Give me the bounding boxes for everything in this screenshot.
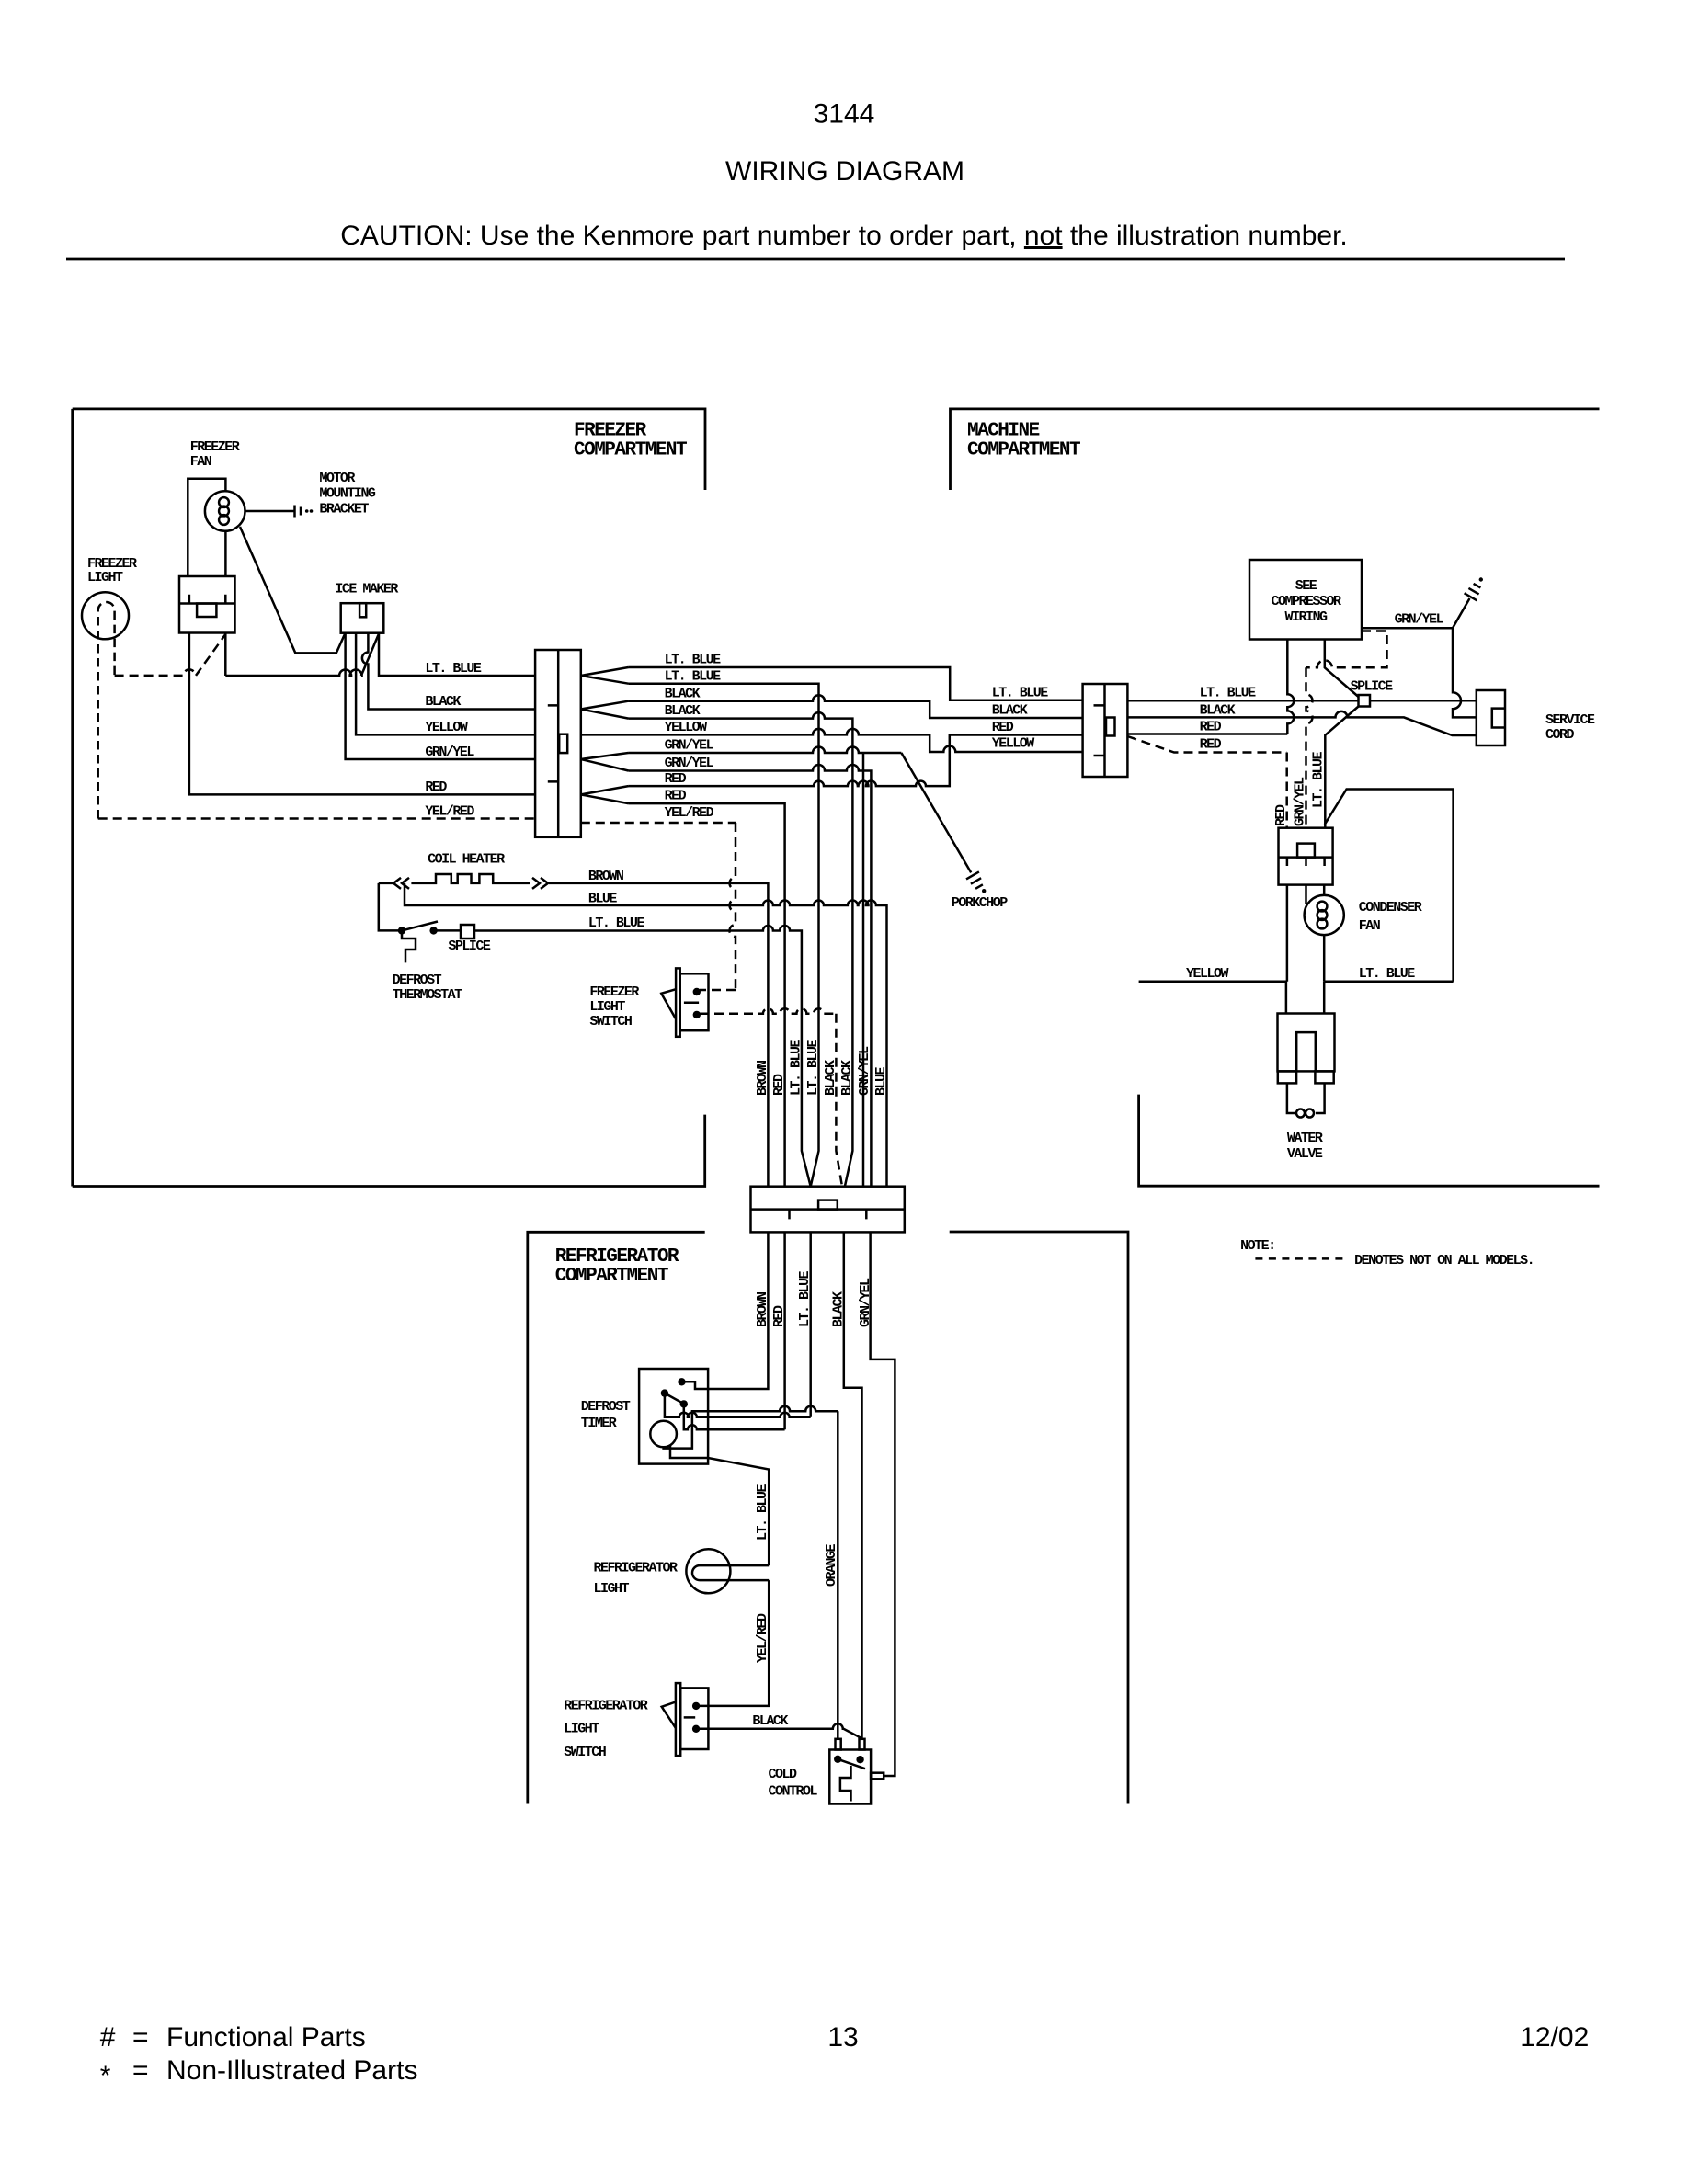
note dashed sample — [1255, 1257, 1343, 1260]
svg-text:LT. BLUE: LT. BLUE — [992, 686, 1049, 701]
svg-text:MOUNTING: MOUNTING — [319, 486, 376, 502]
svg-text:RED: RED — [992, 720, 1014, 735]
svg-text:WIRING DIAGRAM: WIRING DIAGRAM — [725, 156, 964, 187]
freezer compartment border top — [73, 409, 705, 490]
freezer light switch — [676, 968, 680, 1036]
svg-text:REFRIGERATOR: REFRIGERATOR — [564, 1699, 648, 1714]
svg-text:NOTE:: NOTE: — [1240, 1238, 1275, 1254]
svg-text:DEFROST: DEFROST — [393, 973, 442, 988]
svg-text:BLUE: BLUE — [588, 892, 618, 907]
svg-text:LT. BLUE: LT. BLUE — [1359, 966, 1416, 982]
water valve — [1278, 1014, 1335, 1072]
wire GRN/YEL compressor to ground — [1362, 598, 1470, 628]
svg-text:BLACK: BLACK — [992, 703, 1028, 719]
svg-text:*: * — [100, 2061, 111, 2091]
svg-text:YELLOW: YELLOW — [992, 736, 1035, 752]
svg-text:WIRING: WIRING — [1284, 609, 1328, 625]
wire condenser RED pin to YELLOW — [1286, 885, 1289, 982]
svg-text:FREEZER: FREEZER — [574, 421, 647, 442]
svg-text:YEL/RED: YEL/RED — [425, 804, 474, 820]
wire ice maker pin4 diagonal — [361, 634, 379, 677]
svg-text:12/02: 12/02 — [1520, 2022, 1589, 2053]
wire GRN/YEL2 down to lower connector — [629, 765, 872, 1187]
wire BLACK2 down to lower connector — [629, 712, 853, 1187]
machine compartment border bottom — [1139, 1095, 1600, 1187]
svg-text:GRN/YEL: GRN/YEL — [857, 1046, 873, 1096]
wire fan pin to LT.BLUE junction — [224, 633, 227, 677]
svg-text:LIGHT: LIGHT — [87, 570, 123, 586]
wire splice to condenser LT.BLUE — [1325, 707, 1358, 828]
refrigerator light switch — [676, 1683, 680, 1756]
wire YELLOW to machine connector — [581, 729, 1083, 752]
svg-text:Non-Illustrated Parts: Non-Illustrated Parts — [166, 2055, 417, 2086]
svg-text:GRN/YEL: GRN/YEL — [1395, 612, 1444, 628]
svg-text:GRN/YEL: GRN/YEL — [665, 756, 714, 771]
freezer light bulb — [82, 592, 129, 639]
svg-text:RED: RED — [665, 771, 687, 787]
svg-text:PORKCHOP: PORKCHOP — [952, 895, 1009, 911]
svg-text:LIGHT: LIGHT — [564, 1722, 599, 1737]
svg-text:BRACKET: BRACKET — [319, 502, 369, 518]
wire fan motor to ice maker pin1 — [240, 527, 345, 653]
svg-text:RED: RED — [1200, 720, 1222, 735]
svg-text:DEFROST: DEFROST — [581, 1399, 631, 1415]
svg-text:LT. BLUE: LT. BLUE — [588, 916, 645, 931]
svg-text:YELLOW: YELLOW — [665, 720, 708, 735]
wire LT.BLUE2 down to lower connector — [629, 684, 819, 1187]
timer motor — [650, 1421, 677, 1448]
svg-text:RED: RED — [425, 779, 447, 795]
svg-text:MACHINE: MACHINE — [967, 421, 1040, 442]
compressor wiring box — [1249, 560, 1362, 640]
condenser fan coil — [1317, 902, 1328, 912]
machine compartment border top — [951, 409, 1600, 490]
refrigerator light filament — [692, 1565, 769, 1580]
svg-text:BLACK: BLACK — [425, 694, 461, 710]
wire fan pin to RED — [189, 633, 535, 795]
cabinet-to-refrigerator connector — [751, 1187, 905, 1233]
wire timer to LT.BLUE supply — [665, 1396, 811, 1417]
motor mounting bracket symbol — [295, 506, 302, 518]
svg-text:BROWN: BROWN — [588, 869, 624, 884]
chassis ground hatch — [1465, 584, 1481, 600]
wire YEL/RED dashed to freezer light switch — [581, 822, 736, 825]
wire condenser LT.BLUE pin through motor — [1323, 885, 1326, 982]
wire LT.BLUE to machine connector — [629, 667, 1083, 700]
splice square left — [461, 925, 474, 938]
porkchop chassis hatch — [966, 871, 983, 888]
svg-text:Functional Parts: Functional Parts — [166, 2022, 366, 2053]
svg-text:SWITCH: SWITCH — [589, 1014, 632, 1029]
water valve solenoid coil — [1287, 1083, 1295, 1113]
svg-text:COMPARTMENT: COMPARTMENT — [574, 440, 687, 461]
condenser fan housing outline — [1325, 790, 1454, 982]
svg-text:FAN: FAN — [1359, 918, 1381, 934]
wire LT.BLUE splice to service cord — [1370, 700, 1477, 702]
wire freezer light to fan connector (dashed) — [115, 669, 196, 675]
wire freezer light to connector YEL/RED (dashed) — [98, 817, 535, 820]
svg-text:YELLOW: YELLOW — [1186, 966, 1229, 982]
wire BLACK to machine connector — [629, 695, 1083, 718]
svg-text:COMPRESSOR: COMPRESSOR — [1271, 594, 1341, 609]
wire YELLOW to water valve — [1139, 982, 1286, 1014]
porkchop ground strap diagonal — [901, 753, 971, 872]
cold control box — [829, 1750, 871, 1804]
timer switch arm — [665, 1393, 687, 1405]
condenser fan motor — [1305, 895, 1344, 935]
connector fan-out BLACK pair — [581, 701, 629, 710]
svg-text:=: = — [132, 2022, 149, 2053]
svg-text:LT. BLUE: LT. BLUE — [805, 1039, 821, 1096]
svg-text:REFRIGERATOR: REFRIGERATOR — [555, 1246, 679, 1268]
svg-text:ICE MAKER: ICE MAKER — [335, 582, 398, 597]
svg-text:YELLOW: YELLOW — [425, 720, 468, 735]
wire BLACK to service cord — [1127, 711, 1476, 735]
connector fan-out RED pair — [581, 786, 629, 794]
svg-text:YEL/RED: YEL/RED — [755, 1613, 770, 1663]
wire condenser GRN/YEL pin to motor — [1305, 885, 1307, 904]
freezer light filament and leads (dashed) — [98, 602, 115, 818]
svg-text:LIGHT: LIGHT — [594, 1581, 630, 1597]
wire ice maker pin1 to GRN/YEL — [346, 633, 535, 759]
svg-text:FAN: FAN — [190, 454, 212, 470]
condenser fan connector — [1279, 828, 1333, 885]
svg-text:LIGHT: LIGHT — [589, 999, 625, 1015]
wire ORANGE down to cold control — [837, 1411, 839, 1739]
defrost thermostat — [398, 927, 405, 934]
freezer-to-cabinet connector — [535, 650, 581, 837]
svg-text:COMPARTMENT: COMPARTMENT — [967, 440, 1080, 461]
svg-text:CONTROL: CONTROL — [769, 1784, 818, 1800]
cold control contacts — [834, 1756, 841, 1763]
heater left end vertical — [379, 883, 399, 931]
svg-text:RED: RED — [665, 789, 687, 804]
svg-text:#: # — [100, 2022, 116, 2053]
svg-text:BLACK: BLACK — [665, 687, 701, 702]
freezer fan connector — [179, 576, 235, 633]
svg-text:LT. BLUE: LT. BLUE — [788, 1039, 804, 1096]
wire BROWN to timer — [685, 1232, 768, 1389]
svg-text:LT. BLUE: LT. BLUE — [665, 653, 722, 668]
left border — [71, 409, 74, 1187]
svg-text:BROWN: BROWN — [755, 1060, 770, 1096]
freezer fan motor — [205, 491, 245, 531]
coil heater element — [379, 874, 548, 889]
compressor LT.BLUE pin to splice — [1325, 640, 1359, 698]
svg-text:BLUE: BLUE — [873, 1066, 889, 1096]
svg-text:LT. BLUE: LT. BLUE — [665, 669, 722, 685]
svg-text:LT. BLUE: LT. BLUE — [425, 661, 482, 677]
wire ice maker pin3 to BLACK — [362, 633, 535, 710]
wire RED2 down to lower connector — [629, 803, 785, 1187]
svg-text:DENOTES NOT ON ALL MODELS.: DENOTES NOT ON ALL MODELS. — [1354, 1253, 1534, 1268]
svg-text:BLACK: BLACK — [1200, 703, 1236, 719]
svg-text:SWITCH: SWITCH — [564, 1745, 606, 1760]
svg-text:FREEZER: FREEZER — [589, 984, 639, 1000]
svg-text:ORANGE: ORANGE — [824, 1543, 839, 1587]
wire fan to mounting bracket — [245, 510, 295, 513]
machine compartment connector — [1083, 684, 1128, 777]
svg-text:GRN/YEL: GRN/YEL — [1293, 777, 1308, 826]
freezer compartment border bottom — [73, 1115, 705, 1187]
svg-text:BLACK: BLACK — [665, 703, 701, 719]
svg-text:CAUTION: Use the Kenmore part: CAUTION: Use the Kenmore part number to … — [340, 221, 1348, 251]
wire coil heater BROWN — [549, 883, 769, 1187]
svg-text:SERVICE: SERVICE — [1545, 712, 1595, 728]
svg-text:RED: RED — [1273, 804, 1289, 826]
svg-text:RED: RED — [1200, 737, 1222, 753]
compressor RED pin — [1287, 640, 1294, 734]
svg-text:GRN/YEL: GRN/YEL — [665, 738, 714, 754]
wire timer to RED defrost feed — [684, 1407, 785, 1429]
wire GRN/YEL to service cord — [1453, 628, 1477, 717]
wire ice maker pin2 to YELLOW — [356, 633, 535, 735]
wire BLUE — [405, 883, 887, 1187]
wire timer to refrigerator light LT.BLUE — [670, 1445, 769, 1566]
wire YEL/RED light to switch — [696, 1580, 769, 1706]
svg-text:LT. BLUE: LT. BLUE — [755, 1484, 770, 1541]
wire LT.BLUE to water valve — [1324, 981, 1453, 984]
svg-text:LT. BLUE: LT. BLUE — [1311, 751, 1327, 808]
svg-text:BLACK: BLACK — [823, 1060, 838, 1096]
svg-text:SPLICE: SPLICE — [448, 938, 491, 954]
svg-text:COMPARTMENT: COMPARTMENT — [555, 1266, 668, 1287]
freezer fan coil — [219, 497, 229, 507]
wire LT.BLUE thermostat to lower bus — [434, 929, 461, 932]
compressor GRN/YEL dashed loop — [1306, 631, 1387, 668]
svg-text:13: 13 — [827, 2022, 858, 2053]
svg-text:YEL/RED: YEL/RED — [665, 805, 714, 821]
header rule — [66, 258, 1565, 261]
svg-text:FREEZER: FREEZER — [190, 439, 240, 455]
refrigerator light bulb — [686, 1549, 730, 1593]
cold control bellows — [840, 1766, 851, 1802]
wire GRN/YEL bus down to cold control — [871, 1232, 895, 1776]
svg-text:CORD: CORD — [1545, 727, 1575, 743]
svg-text:MOTOR: MOTOR — [319, 471, 355, 486]
wire ice maker pin4 to LT.BLUE — [379, 633, 535, 676]
defrost timer box — [639, 1369, 708, 1464]
svg-text:3144: 3144 — [814, 99, 875, 130]
svg-text:CONDENSER: CONDENSER — [1359, 900, 1422, 916]
wire RED dashed to condenser — [1127, 736, 1286, 753]
timer contact dots — [678, 1378, 685, 1385]
svg-text:RED: RED — [771, 1074, 787, 1096]
refrigerator compartment border — [528, 1232, 705, 1803]
wire LT.BLUE bus to timer line — [809, 1232, 812, 1416]
service cord connector — [1477, 690, 1505, 745]
ice maker connector — [341, 603, 384, 633]
wire fan to ice maker LT.BLUE segment — [225, 670, 361, 677]
svg-text:COLD: COLD — [769, 1767, 798, 1782]
wire GRN/YEL1 down to lower connector — [862, 753, 865, 1187]
svg-text:SPLICE: SPLICE — [1351, 679, 1394, 695]
svg-text:WATER: WATER — [1287, 1131, 1323, 1146]
svg-text:COIL HEATER: COIL HEATER — [428, 852, 505, 868]
wire timer motor to ORANGE — [664, 1406, 838, 1449]
svg-text:THERMOSTAT: THERMOSTAT — [393, 987, 463, 1003]
freezer fan housing — [188, 479, 225, 576]
svg-text:=: = — [132, 2055, 149, 2086]
wire RED bus to timer — [783, 1232, 786, 1429]
svg-text:TIMER: TIMER — [581, 1416, 617, 1431]
svg-text:BLACK: BLACK — [752, 1713, 788, 1729]
wire freezer switch to BLACK dashed bus — [700, 1008, 836, 1014]
svg-text:VALVE: VALVE — [1287, 1146, 1323, 1162]
splice square machine — [1359, 695, 1371, 707]
svg-text:REFRIGERATOR: REFRIGERATOR — [594, 1561, 679, 1576]
wire BLACK bus down to cold control — [844, 1232, 862, 1738]
svg-text:BLACK: BLACK — [839, 1060, 855, 1096]
connector fan-out GRN/YEL pair — [581, 753, 629, 759]
wire GRN/YEL1 porkchop branch — [629, 747, 902, 753]
wire LT.BLUE to splice — [1127, 700, 1358, 702]
svg-text:SEE: SEE — [1295, 578, 1317, 594]
svg-text:LT. BLUE: LT. BLUE — [1200, 686, 1257, 701]
wire BLACK switch to cold control — [696, 1723, 861, 1738]
wire RED to compressor junction — [1127, 733, 1287, 735]
svg-text:GRN/YEL: GRN/YEL — [425, 745, 474, 760]
connector fan-out LT.BLUE pair — [581, 667, 629, 676]
wire RED1 to machine connector — [629, 735, 1083, 787]
